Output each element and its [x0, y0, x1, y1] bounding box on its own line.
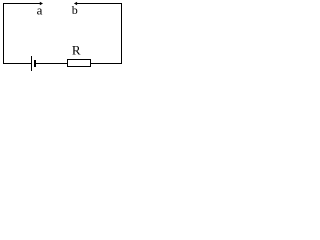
wire: left vertical wire — [3, 3, 4, 64]
svg-text:a: a — [37, 2, 43, 17]
wire: top-left horizontal wire to terminal a — [3, 3, 40, 4]
battery cell: long positive plate — [31, 56, 32, 71]
wire: resistor to right wire — [91, 63, 121, 64]
node a arrowhead (points right) — [40, 2, 43, 5]
wire: bottom-left wire to battery — [3, 63, 31, 64]
svg-text:R: R — [72, 42, 81, 57]
wire: top-right horizontal wire from terminal b — [77, 3, 122, 4]
wire: battery to resistor — [36, 63, 67, 64]
resistor R box — [68, 60, 91, 67]
wire: right vertical wire — [121, 3, 122, 64]
svg-text:b: b — [72, 3, 78, 17]
battery cell: short negative plate — [34, 60, 36, 67]
node b arrowhead (points left) — [74, 2, 77, 5]
